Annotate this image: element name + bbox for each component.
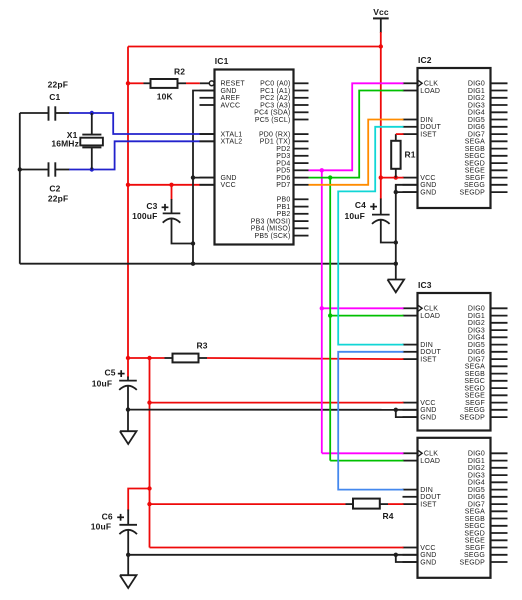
IC1 pin AREF (left, stub) (200, 97, 215, 99)
wire Vcc horizontal rail (128, 46, 381, 48)
node red bus / R2 junction (126, 81, 130, 85)
svg-text:16MHz: 16MHz (51, 138, 79, 148)
IC1 pin PB5 (SCK) (right, stub) (294, 235, 309, 237)
svg-text:XTAL1: XTAL1 (221, 132, 243, 139)
svg-text:PD6: PD6 (276, 175, 290, 182)
wire R2 to RESET (red) (186, 82, 200, 84)
svg-text:SEGG: SEGG (464, 552, 485, 559)
IC1 pin GND (left, stub) (200, 177, 215, 179)
svg-text:DIG6: DIG6 (468, 124, 485, 131)
svg-text:SEGB: SEGB (465, 146, 485, 153)
IC4 pin SEGC (right, stub) (491, 525, 508, 527)
node Vcc junction (379, 44, 383, 48)
IC2 pin DIG2 (right, stub) (491, 97, 508, 99)
svg-text:PD3: PD3 (276, 153, 290, 160)
svg-text:IC2: IC2 (418, 55, 432, 65)
wire C5 bottom lead (127, 385, 129, 410)
ground symbol below C5 (120, 431, 137, 444)
IC2 pin DIN (left, stub) (403, 119, 418, 121)
node red bus2 top junction (147, 356, 151, 360)
IC1 pin PC4 (SDA) (right, stub) (294, 111, 309, 113)
wire C1 right lead (55, 112, 69, 114)
label C3 plus (162, 206, 169, 208)
svg-text:PC2 (A2): PC2 (A2) (260, 95, 290, 102)
svg-text:SEGA: SEGA (465, 139, 485, 146)
IC1 pin PD2 (right, stub) (294, 148, 309, 150)
IC4 pin SEGB (right, stub) (491, 518, 508, 520)
svg-text:DOUT: DOUT (420, 494, 441, 501)
svg-text:GND: GND (420, 182, 436, 189)
IC3 pin DOUT (left, stub) (403, 351, 418, 353)
svg-text:PC4 (SDA): PC4 (SDA) (254, 110, 290, 117)
svg-text:LOAD: LOAD (420, 88, 440, 95)
IC4 pin SEGA (right, stub) (491, 510, 508, 512)
node ground bus / IC2 ground junction (394, 262, 398, 266)
svg-text:DIG1: DIG1 (468, 458, 485, 465)
IC4 pin VCC (left, stub) (403, 547, 418, 549)
svg-text:DIG5: DIG5 (468, 342, 485, 349)
node R4 row junction (147, 502, 151, 506)
wire LOAD net vertical (green) (329, 178, 331, 461)
svg-text:SEGC: SEGC (464, 153, 485, 160)
IC2 pin DIG0 (right, stub) (491, 82, 508, 84)
svg-text:PB3 (MOSI): PB3 (MOSI) (251, 219, 291, 226)
svg-text:SEGB: SEGB (465, 371, 485, 378)
wire C3 top lead (red) (171, 185, 173, 200)
node C5 ground junction (126, 407, 130, 411)
node C6 branch junction (147, 486, 151, 490)
capacitor C5 (119, 380, 137, 382)
svg-text:R1: R1 (405, 149, 416, 159)
svg-text:SEGA: SEGA (465, 364, 485, 371)
IC4 pin SEGG (right, stub) (491, 554, 508, 556)
svg-text:SEGC: SEGC (464, 378, 485, 385)
svg-text:SEGC: SEGC (464, 523, 485, 530)
wire LOAD to IC3 (green) (330, 315, 403, 317)
svg-text:GND: GND (420, 190, 436, 197)
wire IC1 GND top row (193, 91, 215, 264)
IC1 pin PD5 (right, stub) (294, 169, 309, 171)
node IC3 GND junction (394, 408, 398, 412)
IC3 pin SEGD (right, stub) (491, 387, 508, 389)
IC3 pin SEGG (right, stub) (491, 409, 508, 411)
IC4 pin SEGDP (right, stub) (491, 561, 508, 563)
wire C3 bottom (172, 218, 194, 244)
svg-text:DIG0: DIG0 (468, 306, 485, 313)
IC2 pin DIG5 (right, stub) (491, 119, 508, 121)
IC3 pin GND (left, stub) (403, 416, 418, 418)
svg-text:SEGD: SEGD (464, 530, 485, 537)
svg-text:CLK: CLK (424, 306, 438, 313)
wire R3 row left (red) (128, 357, 165, 359)
IC4 pin DIG4 (right, stub) (491, 481, 508, 483)
node red bus / IC1 VCC junction (126, 183, 130, 187)
microcontroller U/IC1 box (215, 70, 294, 245)
wire red bus2 vertical (149, 358, 151, 548)
svg-text:ISET: ISET (420, 502, 437, 509)
IC1 pin PD1 (TX) (right, stub) (294, 140, 309, 142)
svg-text:DIG1: DIG1 (468, 88, 485, 95)
IC1 pin PD3 (right, stub) (294, 155, 309, 157)
wire ground bus bottom (20, 263, 396, 265)
svg-text:PB4 (MISO): PB4 (MISO) (251, 226, 291, 233)
IC2 pin DIG6 (right, stub) (491, 126, 508, 128)
IC3 pin SEGC (right, stub) (491, 380, 508, 382)
svg-text:DIG5: DIG5 (468, 117, 485, 124)
svg-text:SEGF: SEGF (465, 545, 485, 552)
wire IC1 GND row13 (193, 177, 215, 179)
svg-text:DIG0: DIG0 (468, 81, 485, 88)
IC2 pin SEGB (right, stub) (491, 148, 508, 150)
svg-text:GND: GND (420, 552, 436, 559)
IC1 pin PD7 (right, stub) (294, 184, 309, 186)
IC3 pin DIG1 (right, stub) (491, 315, 508, 317)
wire Vcc vertical to IC2 VCC (380, 47, 382, 178)
IC1 pin PD6 (right, stub) (294, 177, 309, 179)
svg-text:SEGF: SEGF (465, 175, 485, 182)
IC4 pin DIG2 (right, stub) (491, 467, 508, 469)
label C6 plus (117, 516, 124, 518)
IC4 pin DIG6 (right, stub) (491, 496, 508, 498)
node ground bus / C3 vertical junction (191, 262, 195, 266)
wire red bus vertical left (127, 47, 129, 359)
svg-text:GND: GND (420, 407, 436, 414)
svg-text:SEGD: SEGD (464, 386, 485, 393)
wire ground bus IC3 row (128, 409, 396, 411)
IC2 pin SEGD (right, stub) (491, 162, 508, 164)
node IC1 GND row13 junction (191, 175, 195, 179)
capacitor C2 (48, 162, 50, 176)
IC1 RESET inversion bubble (209, 81, 214, 86)
svg-text:SEGE: SEGE (465, 538, 485, 545)
wire IC2 GND vertical to ground (395, 185, 397, 280)
IC4 pin DIG5 (right, stub) (491, 489, 508, 491)
node crystal top junction (90, 111, 94, 115)
IC1 pin PB3 (MOSI) (right, stub) (294, 220, 309, 222)
svg-text:VCC: VCC (420, 400, 435, 407)
IC2 pin GND (left, stub) (403, 184, 418, 186)
svg-text:C5: C5 (105, 367, 116, 377)
svg-text:Vcc: Vcc (373, 7, 389, 17)
wire IC2 VCC row (red) (381, 177, 404, 179)
svg-text:SEGF: SEGF (465, 400, 485, 407)
svg-text:VCC: VCC (420, 545, 435, 552)
svg-text:PB5 (SCK): PB5 (SCK) (254, 233, 290, 240)
wire ground bus IC4 row (128, 554, 396, 556)
ground symbol below C6 (120, 575, 137, 588)
node CLK net junction at PD5 row (320, 168, 324, 172)
svg-text:22pF: 22pF (48, 193, 68, 203)
svg-text:PD2: PD2 (276, 146, 290, 153)
svg-text:DIG3: DIG3 (468, 328, 485, 335)
wire CLK to IC4 (magenta) (322, 452, 404, 454)
svg-text:DIN: DIN (420, 487, 433, 494)
wire R2 left (red) (128, 82, 144, 84)
IC1 pin PC1 (A1) (right, stub) (294, 90, 309, 92)
IC4 (display driver) box (418, 438, 491, 578)
capacitor C1 (48, 106, 50, 120)
svg-text:GND: GND (221, 175, 237, 182)
capacitor C4 (372, 214, 390, 216)
IC1 pin PB1 (right, stub) (294, 206, 309, 208)
IC1 pin PC2 (A2) (right, stub) (294, 97, 309, 99)
svg-text:DIG7: DIG7 (468, 132, 485, 139)
svg-text:R4: R4 (383, 511, 394, 521)
svg-text:PC3 (A3): PC3 (A3) (260, 102, 290, 109)
wire C6 top lead (127, 510, 129, 525)
svg-text:PC0 (A0): PC0 (A0) (260, 81, 290, 88)
svg-text:XTAL2: XTAL2 (221, 139, 243, 146)
IC3 pin SEGB (right, stub) (491, 373, 508, 375)
svg-text:SEGE: SEGE (465, 168, 485, 175)
node C6 ground junction (126, 553, 130, 557)
IC3 pin ISET (left, stub) (403, 358, 418, 360)
svg-text:DIG4: DIG4 (468, 110, 485, 117)
node LOAD net junction at IC3 (328, 313, 332, 317)
svg-text:C4: C4 (355, 200, 366, 210)
IC2 clock input marker (418, 80, 423, 87)
wire IC1 VCC row (red) (128, 184, 200, 186)
svg-text:PD1 (TX): PD1 (TX) (260, 139, 291, 146)
svg-text:DIG3: DIG3 (468, 473, 485, 480)
svg-text:SEGG: SEGG (464, 182, 485, 189)
svg-text:PB1: PB1 (277, 204, 291, 211)
svg-text:10K: 10K (157, 91, 174, 101)
IC2 pin LOAD (left, stub) (403, 90, 418, 92)
IC3 pin DIG5 (right, stub) (491, 344, 508, 346)
wire C1 to XTAL1 (blue) (69, 113, 200, 134)
wire C4 bottom to ground rail (381, 219, 396, 243)
svg-text:ISET: ISET (420, 132, 437, 139)
svg-text:PD0 (RX): PD0 (RX) (259, 132, 291, 139)
IC3 pin GND (left, stub) (403, 409, 418, 411)
svg-text:SEGG: SEGG (464, 407, 485, 414)
wire Vcc stub red (380, 32, 382, 47)
IC2 pin DIG4 (right, stub) (491, 111, 508, 113)
wire IC2 ISET (red) (396, 133, 404, 135)
node C3 branch junction (169, 183, 173, 187)
IC3 pin SEGE (right, stub) (491, 394, 508, 396)
svg-text:PC1 (A1): PC1 (A1) (260, 88, 290, 95)
IC3 pin VCC (left, stub) (403, 402, 418, 404)
IC1 pin PC5 (SCL) (right, stub) (294, 119, 309, 121)
wire C6 bottom lead (127, 529, 129, 555)
resistor R1 (395, 134, 397, 141)
svg-text:SEGDP: SEGDP (459, 415, 485, 422)
svg-text:DIG2: DIG2 (468, 465, 485, 472)
IC3 IC3 box (418, 293, 491, 431)
svg-text:SEGE: SEGE (465, 393, 485, 400)
IC1 pin GND (left, stub) (200, 90, 215, 92)
IC4 pin ISET (left, stub) (403, 503, 418, 505)
wire left loop vertical (19, 113, 21, 264)
svg-text:10uF: 10uF (345, 211, 365, 221)
svg-text:DIG4: DIG4 (468, 480, 485, 487)
svg-text:PD4: PD4 (276, 161, 290, 168)
IC4 pin LOAD (left, stub) (403, 460, 418, 462)
IC2 pin DOUT (left, stub) (403, 126, 418, 128)
wire C2 left (20, 169, 49, 171)
svg-text:PD5: PD5 (276, 168, 290, 175)
svg-text:DIN: DIN (420, 117, 433, 124)
svg-text:DIG3: DIG3 (468, 102, 485, 109)
wire R4 row left (red) (150, 503, 346, 505)
svg-text:AVCC: AVCC (221, 102, 241, 109)
IC4 pin DIG3 (right, stub) (491, 474, 508, 476)
crystal X1 (91, 113, 93, 135)
svg-text:SEGD: SEGD (464, 161, 485, 168)
wire C6 branch (red) (128, 489, 149, 511)
wire IC3 VCC row (red) (150, 402, 404, 404)
wire PD5 to CLK net (magenta) (309, 83, 404, 170)
svg-text:RESET: RESET (221, 81, 246, 88)
IC2 pin ISET (left, stub) (403, 133, 418, 135)
svg-text:IC1: IC1 (215, 56, 229, 66)
svg-text:IC3: IC3 (418, 280, 432, 290)
wire CLK net vertical (magenta) (321, 170, 323, 453)
IC2 pin SEGC (right, stub) (491, 155, 508, 157)
svg-text:SEGA: SEGA (465, 509, 485, 516)
IC4 pin DIG0 (right, stub) (491, 452, 508, 454)
IC1 pin XTAL2 (left, stub) (200, 140, 215, 142)
wire CLK to IC3 (magenta) (322, 307, 404, 309)
resistor R2 (144, 82, 152, 84)
svg-text:C6: C6 (102, 511, 113, 521)
IC2 pin SEGF (right, stub) (491, 177, 508, 179)
IC2 pin DIG1 (right, stub) (491, 90, 508, 92)
IC2 IC2 box (418, 68, 491, 208)
svg-text:PD7: PD7 (276, 182, 290, 189)
IC1 pin PD4 (right, stub) (294, 162, 309, 164)
IC1 pin PD0 (RX) (right, stub) (294, 133, 309, 135)
IC3 pin DIG2 (right, stub) (491, 322, 508, 324)
node IC4 GND junction (394, 553, 398, 557)
node C2 left junction (18, 167, 22, 171)
IC1 pin PC3 (A3) (right, stub) (294, 104, 309, 106)
svg-text:CLK: CLK (424, 451, 438, 458)
wire LOAD to IC4 (green) (330, 460, 403, 462)
IC3 pin DIG6 (right, stub) (491, 351, 508, 353)
resistor R4 (346, 503, 355, 505)
wire IC4 VCC feed (red) (150, 547, 404, 549)
svg-text:PB0: PB0 (277, 197, 291, 204)
capacitor C6 (119, 524, 137, 526)
IC4 pin SEGF (right, stub) (491, 547, 508, 549)
svg-text:SEGDP: SEGDP (459, 190, 485, 197)
svg-text:10uF: 10uF (91, 522, 111, 532)
svg-text:GND: GND (420, 415, 436, 422)
IC3 pin SEGF (right, stub) (491, 402, 508, 404)
wire IC2 DOUT to IC3 DIN (cyan) (338, 127, 403, 345)
svg-text:LOAD: LOAD (420, 313, 440, 320)
svg-text:LOAD: LOAD (420, 458, 440, 465)
svg-text:DOUT: DOUT (420, 124, 441, 131)
svg-text:DIG6: DIG6 (468, 349, 485, 356)
svg-text:AREF: AREF (221, 95, 240, 102)
IC2 pin VCC (left, stub) (403, 177, 418, 179)
svg-text:C2: C2 (49, 184, 60, 194)
svg-text:VCC: VCC (221, 182, 236, 189)
IC2 pin SEGDP (right, stub) (491, 191, 508, 193)
IC3 clock input marker (418, 305, 423, 312)
svg-text:GND: GND (221, 88, 237, 95)
IC3 pin DIG0 (right, stub) (491, 307, 508, 309)
node C4 bottom junction (394, 240, 398, 244)
wire C2 right lead (55, 169, 69, 171)
IC4 pin DIG7 (right, stub) (491, 503, 508, 505)
svg-text:DIG1: DIG1 (468, 313, 485, 320)
svg-text:SEGB: SEGB (465, 516, 485, 523)
svg-text:PB2: PB2 (277, 211, 291, 218)
node IC2 GND junction (394, 190, 398, 194)
wire IC3 GND pair (396, 410, 418, 417)
IC4 clock input marker (418, 450, 423, 457)
IC4 pin DIN (left, stub) (403, 489, 418, 491)
svg-text:10uF: 10uF (92, 378, 112, 388)
svg-text:C3: C3 (146, 201, 157, 211)
node IC3 VCC junction (147, 400, 151, 404)
IC4 pin SEGE (right, stub) (491, 539, 508, 541)
IC3 pin SEGA (right, stub) (491, 365, 508, 367)
IC4 pin GND (left, stub) (403, 561, 418, 563)
svg-text:DIG7: DIG7 (468, 502, 485, 509)
wire R4 to IC4 ISET (red) (388, 503, 404, 505)
IC2 pin SEGA (right, stub) (491, 140, 508, 142)
IC4 pin DOUT (left, stub) (403, 496, 418, 498)
wire PD6 to LOAD net (green) (309, 91, 404, 178)
wire IC4 GND pair (396, 555, 418, 562)
IC2 pin DIG7 (right, stub) (491, 133, 508, 135)
IC2 pin SEGE (right, stub) (491, 169, 508, 171)
IC3 pin LOAD (left, stub) (403, 315, 418, 317)
node C3 bottom junction (191, 241, 195, 245)
svg-text:100uF: 100uF (132, 211, 157, 221)
svg-text:C1: C1 (49, 92, 60, 102)
IC2 pin SEGG (right, stub) (491, 184, 508, 186)
wire C6 to ground symbol (127, 555, 129, 575)
wire C1 left (20, 112, 49, 114)
wire R3 to IC3 ISET (red) (207, 358, 404, 359)
IC1 pin PB2 (right, stub) (294, 213, 309, 215)
svg-text:DIG7: DIG7 (468, 357, 485, 364)
ground symbol below IC2 (388, 280, 405, 293)
IC2 pin DIG3 (right, stub) (491, 104, 508, 106)
node IC2 VCC junction (379, 175, 383, 179)
svg-text:R3: R3 (197, 340, 208, 350)
IC2 pin CLK (left, stub) (403, 82, 418, 84)
IC1 pin PC0 (A0) (right, stub) (294, 82, 309, 84)
svg-text:GND: GND (420, 559, 436, 566)
node R1 bottom junction (394, 175, 398, 179)
IC3 pin CLK (left, stub) (403, 307, 418, 309)
svg-text:DIG2: DIG2 (468, 320, 485, 327)
IC1 pin AVCC (left, stub) (200, 104, 215, 106)
capacitor C3 (163, 212, 181, 214)
IC1 pin VCC (left, stub) (200, 184, 215, 186)
IC3 pin DIG3 (right, stub) (491, 329, 508, 331)
label C4 plus (370, 206, 377, 208)
node red bus bottom junction (126, 356, 130, 360)
IC4 pin DIG1 (right, stub) (491, 460, 508, 462)
svg-text:SEGDP: SEGDP (459, 559, 485, 566)
IC4 pin CLK (left, stub) (403, 452, 418, 454)
svg-text:DOUT: DOUT (420, 349, 441, 356)
node LOAD net junction at PD6 row (328, 175, 332, 179)
svg-text:CLK: CLK (424, 81, 438, 88)
IC3 pin DIG7 (right, stub) (491, 358, 508, 360)
IC1 pin PB4 (MISO) (right, stub) (294, 227, 309, 229)
IC2 pin GND (left, stub) (403, 191, 418, 193)
